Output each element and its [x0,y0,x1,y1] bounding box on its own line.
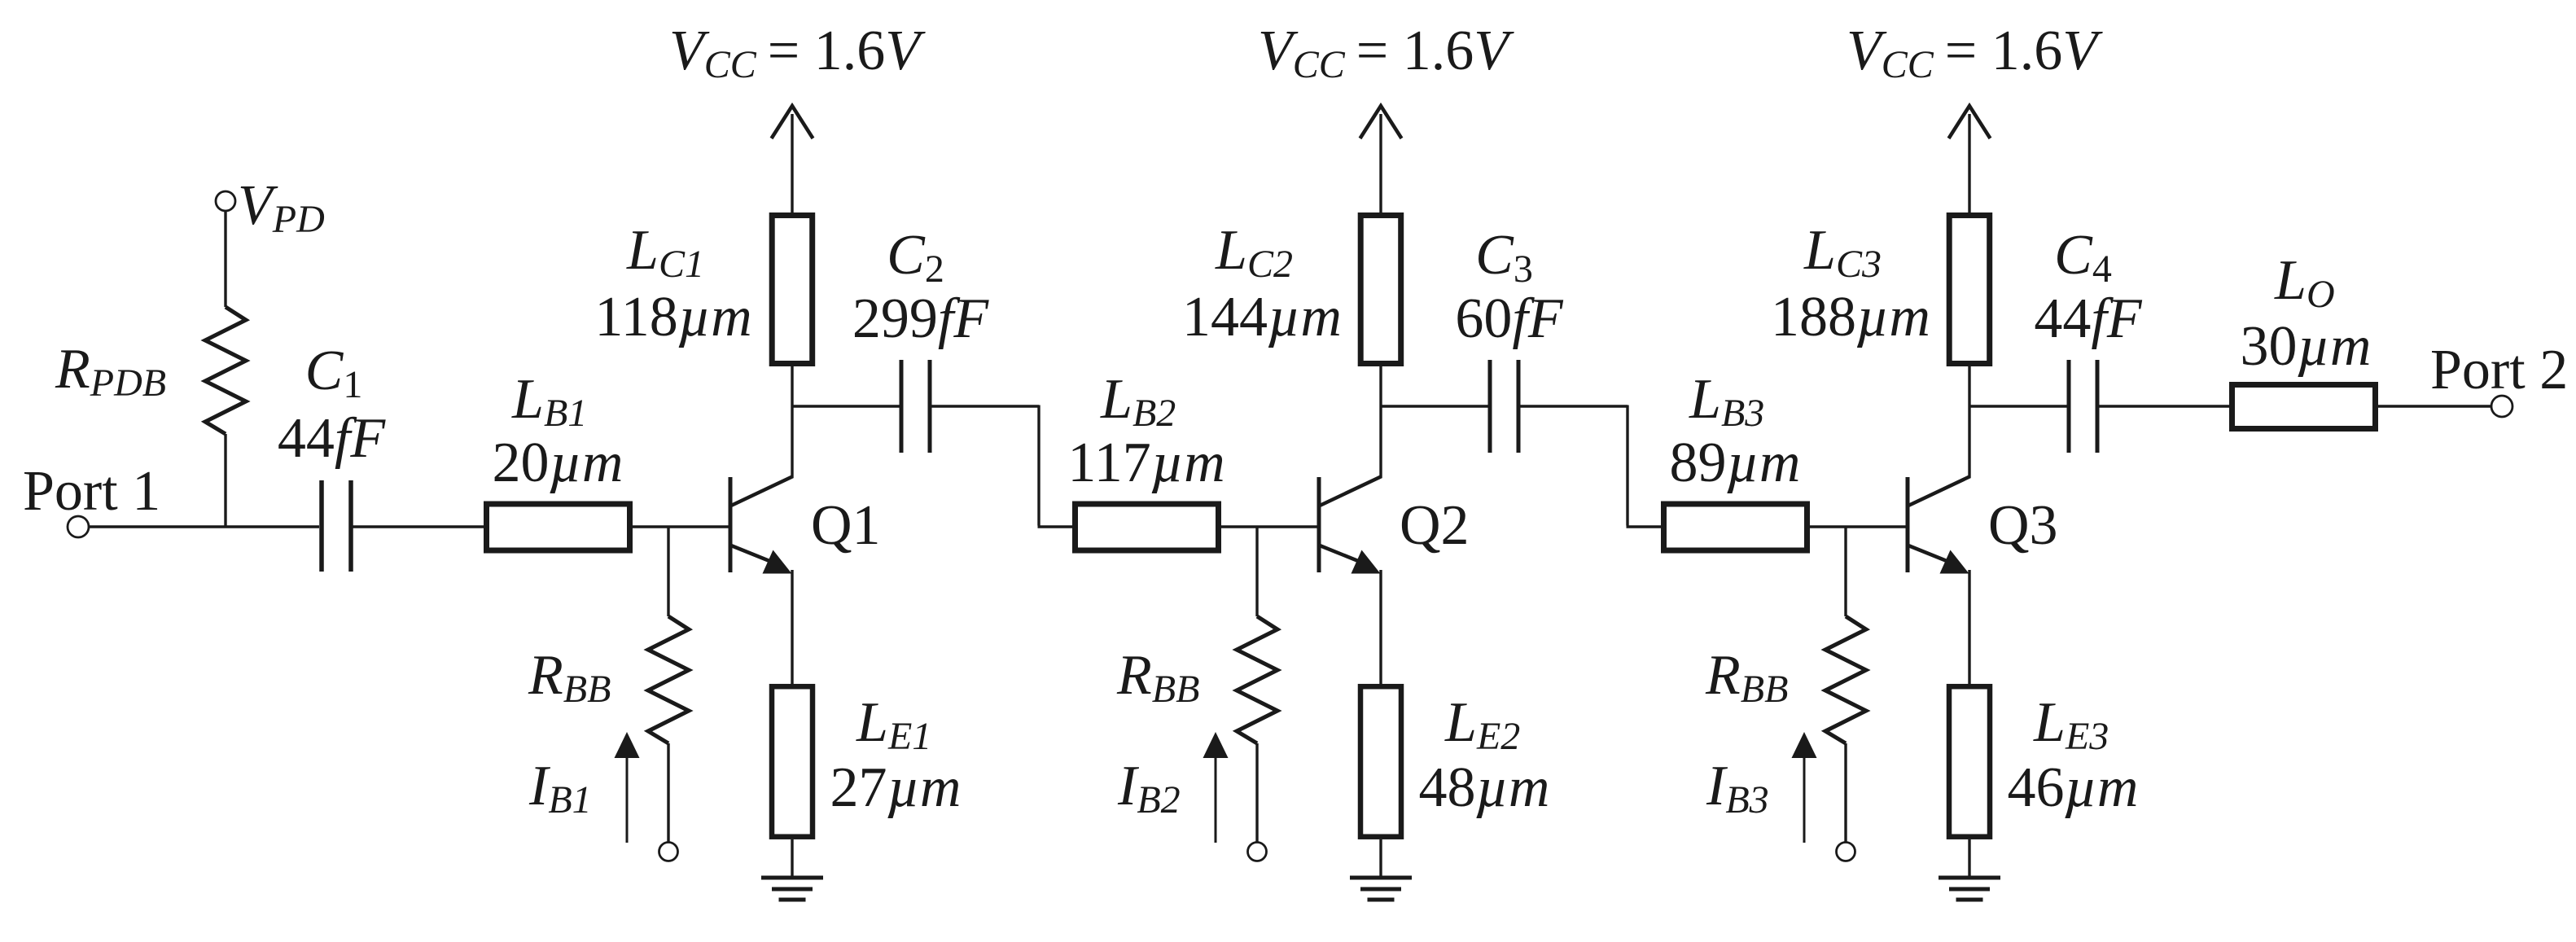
wire: VPD to RPDB [224,211,226,307]
svg-text:Q3: Q3 [1988,494,2058,557]
transistor Q2 [1319,476,1382,574]
wire: LO to Port 2 [2378,405,2491,407]
wire: LE3 to ground (stage 3) [1968,839,1970,878]
inductor LC1 [772,216,813,364]
C3 label [1475,224,1533,291]
wire: collector node to C4 [1969,405,2067,407]
svg-text:46µm: 46µm [2008,756,2139,819]
bias terminal (stage 1) [659,843,678,861]
RPDB label [55,338,166,405]
wire: VCC to LC2 [1379,114,1382,215]
wire: Q2 emitter to LE2 [1379,570,1382,686]
svg-text:30µm: 30µm [2241,315,2372,378]
Q3 label [1988,494,2058,557]
node A: junction Port1/RPDB [225,526,227,528]
LB1 label [511,368,587,435]
LB3 value 89um [1670,432,1801,494]
svg-text:Q2: Q2 [1400,494,1470,557]
LC2 value 144um [1182,286,1342,348]
LC2 label [1215,219,1293,286]
svg-text:44fF: 44fF [2034,287,2142,350]
capacitor C1 [322,480,351,572]
RBB label (stage 2) [1116,644,1199,711]
wire: LC2 to Q2 collector [1379,366,1382,477]
wire: LB1 to Q1 base [630,525,730,528]
svg-text:Q1: Q1 [811,494,881,557]
port Port2 terminal [2491,396,2512,417]
wire: LC1 to Q1 collector [791,366,793,477]
VCC supply label (stage 2) [1258,20,1514,86]
inductor LC3 [1949,216,1990,364]
wire: RBB to bias terminal (stage 3) [1844,743,1847,842]
LC3 value 188um [1771,286,1930,348]
svg-text:27µm: 27µm [830,756,962,819]
resistor RBB (stage 1) [648,616,689,743]
VCC arrow (stage 2) [1360,106,1402,138]
Port 1 label [23,460,160,523]
transistor Q3 [1908,476,1970,574]
svg-text:89µm: 89µm [1670,432,1801,494]
C4 label [2054,224,2112,291]
IB3 current arrow [1792,732,1817,843]
Q1 label [811,494,881,557]
svg-text:20µm: 20µm [493,432,624,494]
ground (stage 1) [761,878,823,900]
wire: base node to RBB (stage 1) [667,527,669,616]
IB1 current arrow [615,732,640,843]
capacitor C4 [2069,360,2097,453]
ground (stage 2) [1350,878,1412,900]
wire: RBB to bias terminal (stage 1) [667,743,669,842]
LE2 value 48um [1419,756,1550,819]
LB1 value 20um [493,432,624,494]
svg-text:144µm: 144µm [1182,286,1342,348]
C3 value 60fF [1455,287,1563,350]
LE3 label [2033,691,2109,758]
C1 value 44fF [278,407,386,470]
ground (stage 3) [1939,878,2000,900]
wire: Q3 emitter to LE3 [1968,570,1970,686]
LE3 value 46um [2008,756,2139,819]
svg-text:48µm: 48µm [1419,756,1550,819]
bias terminal (stage 3) [1837,843,1855,861]
resistor RBB (stage 3) [1825,616,1866,743]
wire: C3 to stage 3 input [1520,405,1663,528]
wire: base node to RBB (stage 3) [1844,527,1847,616]
IB2 label [1117,755,1181,822]
inductor LC2 [1360,216,1401,364]
wire: LB2 to Q2 base [1219,525,1319,528]
wire: Q1 emitter to LE1 [791,570,793,686]
bias terminal (stage 2) [1248,843,1267,861]
VPD label [238,174,325,241]
wire: C2 to stage 2 input [931,405,1075,528]
resistor RBB (stage 2) [1237,616,1277,743]
svg-text:Port 1: Port 1 [23,460,160,523]
inductor LE1 [772,686,813,836]
wire: VCC to LC3 [1968,114,1970,215]
capacitor C3 [1490,360,1518,453]
inductor LB3 [1664,504,1807,550]
svg-text:188µm: 188µm [1771,286,1930,348]
wire: C4 to LO [2099,405,2232,407]
wire: base node to RBB (stage 2) [1255,527,1258,616]
Q2 label [1400,494,1470,557]
svg-text:299fF: 299fF [852,287,989,350]
Port 2 label [2430,339,2568,401]
VCC arrow (stage 1) [772,106,813,138]
svg-text:44fF: 44fF [278,407,386,470]
LB2 label [1100,368,1176,435]
wire: collector node to C2 [792,405,900,407]
RBB label (stage 1) [528,644,611,711]
C2 value 299fF [852,287,989,350]
wire: LE1 to ground (stage 1) [791,839,793,878]
RBB label (stage 3) [1705,644,1788,711]
VCC supply label (stage 1) [669,20,926,86]
wire: collector node to C3 [1381,405,1488,407]
LO label [2274,249,2335,316]
LB3 label [1689,368,1764,435]
VPD terminal [216,191,235,211]
wire: VCC to LC1 [791,114,793,215]
IB1 label [528,755,592,822]
C2 label [887,224,944,291]
IB3 label [1706,755,1769,822]
inductor LO [2232,385,2376,429]
LO value 30um [2241,315,2372,378]
wire: RBB to bias terminal (stage 2) [1255,743,1258,842]
inductor LE3 [1949,686,1990,836]
LB2 value 117um [1067,432,1224,494]
port Port1 terminal [68,516,89,537]
wire: LE2 to ground (stage 2) [1379,839,1382,878]
svg-text:Port 2: Port 2 [2430,339,2568,401]
VCC arrow (stage 3) [1949,106,1991,138]
inductor LB2 [1076,504,1219,550]
wire: Port 1 to C1 [89,525,319,528]
capacitor C2 [901,360,930,453]
C4 value 44fF [2034,287,2142,350]
wire: RPDB to node A [224,434,226,527]
LE2 label [1444,691,1520,758]
LC1 value 118um [594,286,751,348]
LE1 label [856,691,931,758]
svg-text:117µm: 117µm [1067,432,1224,494]
resistor RPDB [205,307,246,434]
wire: C1 to LB1 [353,525,485,528]
IB2 current arrow [1203,732,1229,843]
VCC supply label (stage 3) [1847,20,2103,86]
LC1 label [626,219,704,286]
wire: LC3 to Q3 collector [1968,366,1970,477]
inductor LE2 [1360,686,1401,836]
inductor LB1 [487,504,630,550]
LC3 label [1803,219,1882,286]
transistor Q1 [730,476,793,574]
svg-text:118µm: 118µm [594,286,751,348]
C1 label [305,340,363,406]
svg-text:60fF: 60fF [1455,287,1563,350]
LE1 value 27um [830,756,962,819]
wire: LB3 to Q3 base [1807,525,1908,528]
